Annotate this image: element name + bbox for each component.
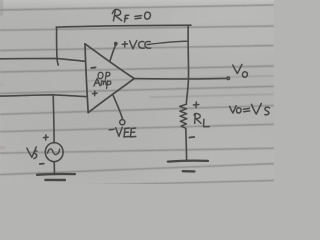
op-amp non-inverting marker + bbox=[93, 91, 98, 96]
-VEE supply bubble bbox=[120, 120, 125, 125]
wire feedback right vertical bbox=[186, 25, 188, 104]
ground right bar1 bbox=[168, 160, 208, 163]
resistor RL zigzag bbox=[180, 104, 187, 128]
ground right bar2 bbox=[183, 170, 195, 173]
ground left bar1 bbox=[37, 173, 75, 176]
label RF = 0 bbox=[112, 9, 150, 22]
+VCC supply dot bbox=[114, 42, 118, 46]
annotation vo = VS bbox=[230, 104, 270, 115]
source VS circle bbox=[45, 143, 63, 162]
output terminal V0 bbox=[227, 77, 230, 80]
+VCC supply lead bbox=[110, 45, 116, 61]
wire inverting input from left edge bbox=[0, 58, 86, 61]
source VS polarity + bbox=[43, 135, 48, 140]
resistor RL polarity - bbox=[189, 136, 194, 139]
ground left bar2 bbox=[45, 179, 65, 182]
wire RL to ground bbox=[185, 128, 188, 160]
op-amp text Amp bbox=[94, 79, 111, 89]
wire source to ground bbox=[53, 162, 55, 174]
-VEE supply lead bbox=[113, 94, 123, 119]
label -VEE bbox=[109, 127, 136, 137]
label RL bbox=[194, 113, 209, 126]
op-amp U1 bbox=[85, 44, 134, 113]
resistor RL polarity + bbox=[193, 102, 199, 108]
wire output bbox=[134, 77, 226, 80]
wire non-inverting input from left edge bbox=[0, 95, 87, 97]
label V0 bbox=[233, 64, 248, 77]
wire feedback left vertical bbox=[57, 27, 59, 65]
op-amp inverting marker bbox=[91, 66, 95, 69]
source VS sine bbox=[48, 149, 60, 155]
op-amp text OP bbox=[98, 72, 110, 79]
label VS bbox=[27, 147, 37, 159]
wire source vertical upper bbox=[52, 95, 55, 143]
source VS polarity - bbox=[40, 163, 44, 165]
label +VCC bbox=[122, 41, 187, 49]
wire feedback top bbox=[56, 25, 191, 27]
